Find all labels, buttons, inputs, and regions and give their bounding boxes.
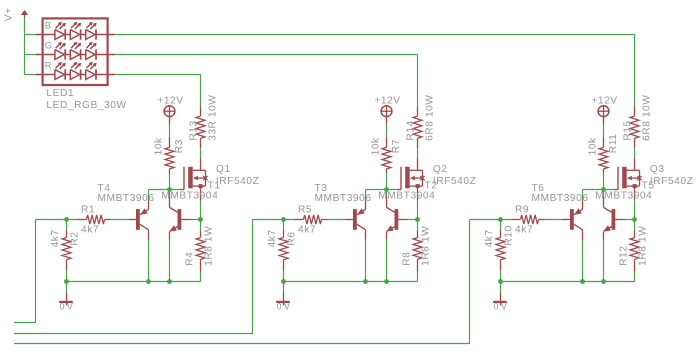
- svg-text:10k: 10k: [588, 137, 599, 155]
- wire V+ to LED row R: [25, 74, 36, 76]
- wire R4 to rail: [200, 272, 202, 282]
- svg-text:0V: 0V: [494, 302, 510, 312]
- wire V+ to LED row B: [25, 34, 36, 36]
- LED R1: [55, 62, 66, 80]
- label R8: [402, 252, 413, 266]
- transistor T3 MMBT3906 PNP: [346, 199, 366, 239]
- label +12V: [157, 96, 183, 107]
- wire R3 to gate node: [169, 174, 171, 190]
- svg-text:4k7: 4k7: [298, 224, 316, 235]
- label +12V: [591, 96, 617, 107]
- wire T2 emitter to rail: [386, 240, 388, 282]
- label R12: [619, 245, 630, 265]
- pin label B: [45, 21, 52, 31]
- wire gate node horizontal: [583, 190, 614, 200]
- resistor R14 6R8 10W: [413, 107, 422, 149]
- LED B1: [55, 22, 66, 40]
- wire R15 to drain: [634, 148, 636, 158]
- label T1: [208, 181, 221, 192]
- wire V+ to LED row G: [25, 54, 36, 56]
- svg-text:LED_RGB_30W: LED_RGB_30W: [46, 100, 126, 111]
- wire V+ vertical: [24, 18, 26, 75]
- label +12V: [374, 96, 400, 107]
- label 0V: [60, 302, 76, 312]
- wire R1 to T4 base: [111, 219, 129, 221]
- svg-text:R8: R8: [402, 252, 413, 266]
- label 33R 10W: [208, 95, 219, 141]
- label R5: [298, 204, 312, 215]
- svg-text:4k7: 4k7: [267, 229, 278, 247]
- svg-text:33R 10W: 33R 10W: [208, 95, 219, 141]
- wire base input to R1: [36, 219, 78, 221]
- svg-text:6R8 10W: 6R8 10W: [642, 95, 653, 141]
- junction rail at pulldown: [281, 279, 286, 284]
- wire base input to R9: [470, 219, 512, 221]
- wire base input to R5: [253, 219, 295, 221]
- wire T1 emitter to rail: [169, 240, 171, 282]
- wire gate node horizontal: [149, 190, 180, 200]
- svg-text:R13: R13: [188, 120, 199, 140]
- wire +12V to R3: [169, 124, 171, 137]
- junction gate node: [384, 187, 389, 192]
- label MMBT3904: [595, 191, 652, 202]
- junction sense node: [415, 217, 420, 222]
- svg-text:IRF540Z: IRF540Z: [433, 176, 476, 187]
- label R7: [391, 139, 402, 153]
- label IRF540Z: [216, 176, 259, 187]
- svg-text:4k7: 4k7: [81, 224, 99, 235]
- wire R12 to rail: [634, 272, 636, 282]
- resistor R6 4k7: [279, 220, 288, 282]
- transistor T4 MMBT3906 PNP: [129, 199, 149, 239]
- resistor R5 4k7: [295, 215, 328, 224]
- wire T1 base to sense node: [191, 219, 201, 221]
- label R3: [174, 139, 185, 153]
- label LED1: [46, 88, 74, 99]
- svg-text:4k7: 4k7: [484, 229, 495, 247]
- svg-text:1R8 1W: 1R8 1W: [638, 226, 649, 266]
- svg-text:IRF540Z: IRF540Z: [650, 176, 693, 187]
- wire T5 base to sense node: [625, 219, 635, 221]
- svg-text:R10: R10: [504, 225, 515, 245]
- label 4k7: [484, 229, 495, 247]
- svg-text:R4: R4: [185, 252, 196, 266]
- label 10k: [371, 137, 382, 155]
- wire gate node to T1 collector: [169, 190, 171, 197]
- svg-text:R2: R2: [70, 231, 81, 245]
- MOSFET Q1 IRF540Z: [180, 159, 208, 201]
- wire ground rail: [67, 281, 201, 283]
- wire gate node to T5 collector: [603, 190, 605, 197]
- label MMBT3906: [315, 193, 372, 204]
- junction rail at T2 emitter: [384, 279, 389, 284]
- wire ground rail: [284, 281, 418, 283]
- label T5: [642, 181, 655, 192]
- MOSFET Q3 IRF540Z: [614, 159, 642, 201]
- label 0V: [494, 302, 510, 312]
- label Q1: [216, 164, 231, 175]
- label MMBT3906: [98, 193, 155, 204]
- wire source to sense node: [417, 201, 419, 231]
- svg-text:R14: R14: [405, 120, 416, 140]
- wire R5 to T3 base: [328, 219, 346, 221]
- svg-text:MMBT3906: MMBT3906: [532, 193, 589, 204]
- junction rail at pulldown: [64, 279, 69, 284]
- junction base input node: [498, 217, 503, 222]
- label Q3: [650, 164, 665, 175]
- resistor R12 1R8 1W: [630, 230, 639, 271]
- label MMBT3906: [532, 193, 589, 204]
- wire row R to Q1 drain column: [115, 75, 200, 107]
- resistor R3 10k: [165, 137, 174, 174]
- label R10: [504, 225, 515, 245]
- label LED_RGB_30W: [46, 100, 126, 111]
- label MMBT3904: [161, 191, 218, 202]
- svg-text:0V: 0V: [60, 302, 76, 312]
- junction rail at T1 emitter: [167, 279, 172, 284]
- label 1R8 1W: [421, 226, 432, 266]
- LED row R internal wire: [35, 74, 115, 76]
- wire T4 collector to rail: [148, 240, 150, 282]
- transistor T2 MMBT3904 NPN: [386, 197, 408, 240]
- label 6R8 10W: [642, 95, 653, 141]
- pin label G: [45, 41, 53, 51]
- label R11: [608, 134, 619, 154]
- supply +12V symbol (Q3 stage): [598, 106, 609, 124]
- LED B2: [70, 22, 81, 40]
- resistor R11 10k: [599, 137, 608, 174]
- wire R9 to T6 base: [545, 219, 563, 221]
- svg-text:R9: R9: [515, 204, 529, 215]
- svg-text:R5: R5: [298, 204, 312, 215]
- junction base input node: [64, 217, 69, 222]
- svg-text:MMBT3906: MMBT3906: [98, 193, 155, 204]
- resistor R2 4k7: [62, 220, 71, 282]
- wire +12V to R7: [386, 124, 388, 137]
- ground symbol 0V: [59, 282, 73, 306]
- svg-text:+12V: +12V: [157, 96, 183, 107]
- svg-text:0V: 0V: [277, 302, 293, 312]
- label R1: [81, 204, 95, 215]
- supply +12V symbol (Q2 stage): [381, 106, 392, 124]
- label 1R8 1W: [204, 226, 215, 266]
- wire T6 collector to rail: [582, 240, 584, 282]
- wire T5 emitter to rail: [603, 240, 605, 282]
- svg-text:+12V: +12V: [374, 96, 400, 107]
- label T4: [98, 183, 111, 194]
- pin label R: [45, 61, 52, 71]
- svg-text:R11: R11: [608, 134, 619, 154]
- label IRF540Z: [650, 176, 693, 187]
- svg-text:R7: R7: [391, 139, 402, 153]
- power symbol V+ arrow: [21, 10, 28, 18]
- svg-text:10k: 10k: [371, 137, 382, 155]
- LED G2: [70, 42, 81, 60]
- label R9: [515, 204, 529, 215]
- label T3: [315, 183, 328, 194]
- transistor T1 MMBT3904 NPN: [169, 197, 191, 240]
- junction gate node: [601, 187, 606, 192]
- label T2: [425, 181, 438, 192]
- wire T3 collector to rail: [365, 240, 367, 282]
- resistor R13 33R 10W: [196, 107, 205, 149]
- svg-text:Q2: Q2: [433, 164, 448, 175]
- wire row G to Q2 drain column: [115, 55, 417, 107]
- wire R7 to gate node: [386, 174, 388, 190]
- resistor R10 4k7: [496, 220, 505, 282]
- transistor T5 MMBT3904 NPN: [603, 197, 625, 240]
- label T6: [532, 183, 545, 194]
- wire R13 to drain: [200, 148, 202, 158]
- label R6: [287, 231, 298, 245]
- label 0V: [277, 302, 293, 312]
- LED B3: [86, 22, 97, 40]
- resistor R4 1R8 1W: [196, 230, 205, 271]
- svg-text:R12: R12: [619, 245, 630, 265]
- wire R8 to rail: [417, 272, 419, 282]
- label 6R8 10W: [425, 95, 436, 141]
- junction sense node: [632, 217, 637, 222]
- LED row G internal wire: [35, 54, 115, 56]
- svg-text:R3: R3: [174, 139, 185, 153]
- svg-text:R15: R15: [622, 120, 633, 140]
- label 4k7: [267, 229, 278, 247]
- junction base input node: [281, 217, 286, 222]
- net label V+: [4, 7, 15, 21]
- label 4k7: [298, 224, 316, 235]
- svg-text:Q1: Q1: [216, 164, 231, 175]
- svg-text:B: B: [45, 21, 52, 31]
- wire gate node horizontal: [366, 190, 397, 200]
- label 4k7: [81, 224, 99, 235]
- LED R3: [86, 62, 97, 80]
- transistor T6 MMBT3906 PNP: [563, 199, 583, 239]
- junction rail at T6 collector: [580, 279, 585, 284]
- label 4k7: [50, 229, 61, 247]
- LED G1: [55, 42, 66, 60]
- label 1R8 1W: [638, 226, 649, 266]
- junction gate node: [167, 187, 172, 192]
- wire input 3 to stage 3 base: [14, 220, 470, 344]
- ground symbol 0V: [276, 282, 290, 306]
- wire R11 to gate node: [603, 174, 605, 190]
- label 4k7: [515, 224, 533, 235]
- MOSFET Q2 IRF540Z: [397, 159, 425, 201]
- svg-text:6R8 10W: 6R8 10W: [425, 95, 436, 141]
- label 10k: [154, 137, 165, 155]
- svg-text:V+: V+: [4, 7, 15, 21]
- resistor R8 1R8 1W: [413, 230, 422, 271]
- label R2: [70, 231, 81, 245]
- svg-text:MMBT3906: MMBT3906: [315, 193, 372, 204]
- LED array LED1 box outline: [43, 18, 108, 85]
- LED row B internal wire: [35, 34, 115, 36]
- label 10k: [588, 137, 599, 155]
- svg-text:10k: 10k: [154, 137, 165, 155]
- svg-text:+12V: +12V: [591, 96, 617, 107]
- svg-text:IRF540Z: IRF540Z: [216, 176, 259, 187]
- svg-text:R6: R6: [287, 231, 298, 245]
- label R13: [188, 120, 199, 140]
- wire source to sense node: [634, 201, 636, 231]
- svg-text:1R8 1W: 1R8 1W: [421, 226, 432, 266]
- wire T2 base to sense node: [408, 219, 418, 221]
- junction rail at pulldown: [498, 279, 503, 284]
- resistor R7 10k: [382, 137, 391, 174]
- svg-text:LED1: LED1: [46, 88, 74, 99]
- resistor R9 4k7: [512, 215, 545, 224]
- wire +12V to R11: [603, 124, 605, 137]
- label MMBT3904: [378, 191, 435, 202]
- label R4: [185, 252, 196, 266]
- label R15: [622, 120, 633, 140]
- wire R14 to drain: [417, 148, 419, 158]
- label IRF540Z: [433, 176, 476, 187]
- svg-text:R1: R1: [81, 204, 95, 215]
- svg-text:1R8 1W: 1R8 1W: [204, 226, 215, 266]
- svg-text:Q3: Q3: [650, 164, 665, 175]
- svg-text:4k7: 4k7: [50, 229, 61, 247]
- wire input 2 to stage 2 base: [14, 220, 253, 334]
- resistor R1 4k7: [78, 215, 111, 224]
- svg-text:4k7: 4k7: [515, 224, 533, 235]
- junction rail at T4 collector: [146, 279, 151, 284]
- junction rail at T5 emitter: [601, 279, 606, 284]
- svg-text:G: G: [45, 41, 53, 51]
- svg-text:R: R: [45, 61, 52, 71]
- resistor R15 6R8 10W: [630, 107, 639, 149]
- label Q2: [433, 164, 448, 175]
- LED R2: [70, 62, 81, 80]
- wire ground rail: [501, 281, 635, 283]
- wire gate node to T2 collector: [386, 190, 388, 197]
- junction sense node: [198, 217, 203, 222]
- ground symbol 0V: [493, 282, 507, 306]
- LED G3: [86, 42, 97, 60]
- wire row B to Q3 drain column: [115, 35, 634, 107]
- wire source to sense node: [200, 201, 202, 231]
- label R14: [405, 120, 416, 140]
- supply +12V symbol (Q1 stage): [164, 106, 175, 124]
- junction rail at T3 collector: [363, 279, 368, 284]
- wire input 1 to stage 1 base: [14, 220, 36, 323]
